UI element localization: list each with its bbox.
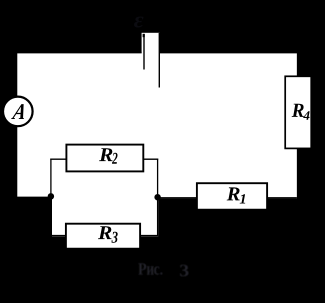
ammeter A1 body [3,97,33,127]
label R3 [98,226,118,243]
wire: bottom-left segment to left junction [16,197,51,199]
wire: left parallel-branch vertical [50,159,52,236]
wire: R3 left lead [50,235,66,237]
resistor R1 body [197,183,267,210]
label epsilon (EMF) [134,16,143,27]
wire: right border segment [297,53,299,199]
node A: left junction dot [48,193,54,199]
wire: bottom-right segment from right junction through R1 [157,197,297,199]
battery U1: long plate [158,33,160,88]
caption: Рис. 3 [138,263,188,276]
wire: top segment right of battery [160,52,298,54]
node B: right junction dot [154,194,160,200]
node: circuit interior (white region bounded by the wire loop) [17,53,297,236]
resistor R2 body [66,145,143,172]
resistor R3 body [66,224,140,249]
battery U1: short plate top cap [143,34,145,37]
label R1 [227,187,245,203]
battery U1: white gap block interrupting top wire [142,33,160,58]
wire: left border segment [15,53,17,198]
wire: right parallel-branch vertical [157,159,159,236]
label A (ammeter) [11,104,27,119]
label R2 [99,148,117,164]
label R4 [292,104,310,120]
battery U1: short plate [143,34,145,70]
wire: R3 right lead [140,235,159,237]
resistor R4 body [285,76,311,148]
wire: R2 left lead [50,158,66,160]
wire: top segment left of battery [17,52,142,54]
wire: R2 right lead [143,158,158,160]
